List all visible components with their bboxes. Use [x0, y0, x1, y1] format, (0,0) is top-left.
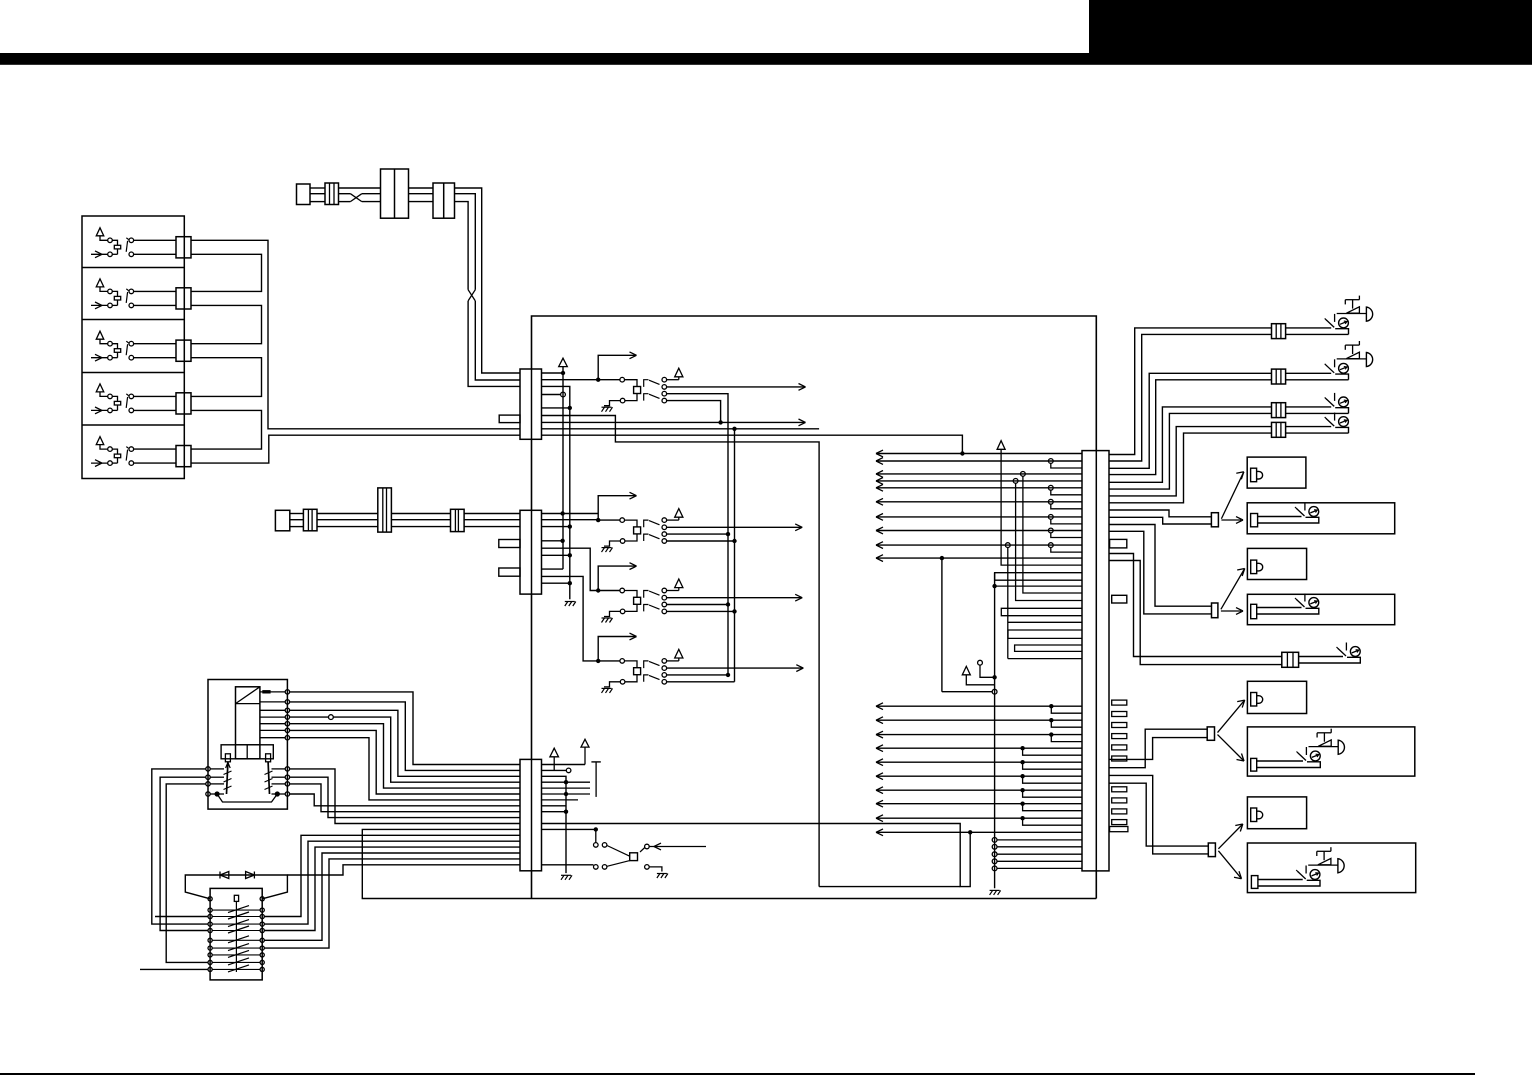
S3 output arrow wire	[667, 597, 803, 599]
CN4 stub A	[1110, 539, 1127, 548]
output jack PJ2	[1325, 364, 1327, 366]
CN2 key stub upper	[499, 540, 520, 548]
power unit pins left	[206, 767, 210, 771]
switch group S2 ground leg	[625, 534, 637, 541]
staircase wire 7	[1109, 427, 1272, 496]
V994 tap 5	[992, 866, 997, 871]
switch group S4 ground leg	[625, 675, 637, 682]
row U3 drop to comb	[1021, 472, 1026, 477]
row L10 junction riser	[968, 830, 972, 834]
bus row U7	[876, 516, 1082, 518]
remote small box B1a	[1247, 457, 1306, 488]
V994 tap 3	[992, 852, 997, 857]
arrow to small box 3	[1218, 700, 1245, 733]
switch group S3 enable arrow	[598, 566, 636, 590]
CN4 stub bank1	[1112, 700, 1127, 705]
CN2 key stub lower	[499, 568, 520, 576]
remote jack RJ4	[1296, 870, 1298, 872]
connector CN-J1	[176, 237, 191, 258]
chain2 connector CN-E	[451, 509, 465, 531]
phone jack J4	[96, 384, 104, 392]
CN3 right row 2 with contact	[542, 769, 567, 771]
remote inner plug rect 2	[1251, 604, 1257, 618]
phone jack J2	[96, 279, 104, 287]
remote long box B3b	[1247, 727, 1414, 776]
jack panel divider 4	[82, 424, 184, 426]
comb row 622	[1008, 621, 1082, 623]
comb bracket 3	[1008, 630, 1082, 638]
remote small box B2a	[1247, 548, 1306, 579]
V994 tap 4	[992, 859, 997, 864]
comb row with tap	[995, 585, 1082, 587]
switch group S2 feed junction	[596, 518, 600, 522]
diode D2	[246, 872, 255, 879]
bus row L4	[876, 747, 1082, 749]
CN1 key stub	[499, 415, 520, 423]
power unit top-right pin wires to CN3	[290, 692, 520, 765]
S4 contact4 end	[667, 681, 735, 683]
chain1 wire 3 down to CN1	[455, 202, 469, 290]
T5 stem	[584, 747, 586, 764]
daisy-chain wires jack panel	[191, 254, 262, 291]
row taps lower bank A	[1049, 704, 1053, 708]
bus row U8	[876, 530, 1082, 532]
header black panel	[1089, 0, 1532, 54]
supply triangle T3	[997, 441, 1005, 450]
switch group S1 ground leg	[625, 394, 637, 401]
wire CN1 pin5 to B2	[542, 407, 570, 409]
chain2 connector CN-C	[303, 509, 317, 531]
switch group S4 input contact	[598, 660, 620, 662]
switch group S1 ground	[602, 406, 612, 408]
bus B2	[542, 386, 570, 599]
bus row U4	[876, 480, 1082, 482]
remote icon I1	[1251, 468, 1257, 482]
output jack PJ3	[1325, 397, 1327, 399]
selector unit box	[210, 888, 262, 980]
remote icon I4	[1251, 808, 1257, 822]
switch group S3 input contact	[598, 590, 620, 592]
switch group S3 ground	[602, 617, 612, 619]
transformer leg R	[266, 754, 271, 762]
S1 contact3 drop	[667, 394, 728, 675]
switch group S2 contacts	[662, 518, 667, 523]
remote wire 3	[1257, 760, 1303, 762]
jack panel divider 2	[82, 319, 184, 321]
chain1 crossover X2	[468, 290, 475, 301]
main board outline	[532, 316, 1097, 899]
chain1 connector CN-A	[325, 183, 339, 205]
connector CN-J5	[176, 446, 191, 467]
wires jack J5 to connector	[134, 448, 176, 450]
chain1 wire 1 down to CN1	[455, 188, 521, 373]
wires CN-P3 to jack	[1286, 406, 1332, 408]
rectifier wire to CN3	[287, 865, 520, 875]
bus row U6	[876, 501, 1082, 503]
bus B1	[562, 367, 564, 569]
staircase wire 3	[1109, 373, 1272, 468]
board connector CN3	[520, 759, 542, 870]
inline connector CN-P1	[1272, 324, 1286, 339]
wire CN2 pin4 to B1	[542, 540, 563, 542]
switch group S2 output triangle	[667, 519, 679, 521]
V994 tap 1	[992, 838, 997, 843]
S1 output arrow wire	[667, 386, 806, 388]
jack panel divider 1	[82, 267, 184, 269]
remote wire 1	[1258, 516, 1302, 518]
wires CN-P5 to jack	[1299, 656, 1343, 658]
CN4 stub B	[1112, 595, 1127, 603]
switch group S3 feed junction	[596, 588, 600, 592]
power unit pins right	[285, 690, 289, 694]
switch group S1 actuator	[634, 387, 641, 394]
V994 ground	[990, 889, 1000, 891]
output jack PJ4	[1325, 417, 1327, 419]
chain1 plug P1	[297, 184, 311, 205]
bus row U1	[876, 453, 1082, 455]
wire CN2 pin8 feeds S4	[542, 576, 599, 661]
remote long box B1b	[1247, 503, 1395, 534]
board connector CN1	[520, 369, 542, 439]
reset switch arrow wire	[649, 846, 706, 848]
selector key pin	[234, 895, 238, 901]
contact circle K1	[978, 660, 983, 665]
staircase wire 4	[1109, 380, 1272, 475]
wire CN2 pin3 to B2	[542, 526, 570, 528]
selector contact rows	[212, 909, 260, 911]
row U4 drop to comb	[1013, 479, 1018, 484]
remote inner plug rect 1	[1251, 514, 1258, 527]
wire to remote CN-R1 a	[1109, 510, 1211, 517]
S3 contact4 tap	[667, 610, 735, 612]
comb bracket 1	[995, 573, 1082, 581]
wires CN-P2 to jack	[1286, 372, 1332, 374]
S4 contact3 end	[667, 674, 728, 676]
frame bottom wire	[819, 886, 960, 888]
bus row L5	[876, 761, 1082, 763]
CN3 right row 8	[542, 805, 567, 807]
wires CN-P4 to jack	[1286, 426, 1332, 428]
comb row 658	[1008, 658, 1082, 660]
remote long box B4b	[1247, 843, 1415, 893]
power unit box	[208, 680, 287, 810]
bus row L2	[876, 719, 1082, 721]
wrap wire C	[166, 784, 208, 963]
arrow to small box 1	[1221, 472, 1243, 519]
relay lever left	[227, 762, 228, 794]
phone jack J3	[96, 331, 104, 339]
wires CN-P1 to jack	[1286, 327, 1332, 329]
phone jack J1	[96, 228, 104, 236]
arrow to long box 4	[1218, 851, 1241, 879]
selector left stub wires	[155, 916, 208, 918]
bus row U10	[876, 557, 1082, 559]
remote long box B2b	[1247, 594, 1394, 624]
bus row L3	[876, 734, 1082, 736]
transformer leg L	[225, 754, 230, 762]
switch group S2 ground	[602, 547, 612, 549]
chain1 wires P1-CNA	[310, 187, 325, 189]
bus row U5	[876, 487, 1082, 489]
bus row L9	[876, 817, 1082, 819]
V994 bus	[994, 573, 996, 889]
wire CN1 pin9 to row1	[542, 435, 963, 453]
staircase wire 2	[1109, 334, 1272, 461]
S1 contact4 drop to aux arrow	[667, 401, 721, 423]
chain2 ferrite core FB2	[378, 488, 392, 532]
header rule bar	[0, 53, 1532, 65]
wires to remote CN-R2	[1109, 525, 1212, 607]
V1008 drop from row U9	[1005, 543, 1010, 548]
wire CN2 pin7 to B1 end	[542, 568, 564, 570]
selector right wires to CN3	[264, 835, 520, 916]
switch group S1 input contact	[598, 379, 620, 381]
chain2 wires CNC to CN-D	[317, 513, 378, 515]
bus V735	[734, 429, 736, 682]
remote connector CN-R4	[1208, 843, 1215, 857]
wire J1 to board connector CN1	[191, 240, 520, 428]
CN3 right row 3 bus start	[542, 776, 567, 873]
wire CN1 pin7 aux arrow	[542, 421, 806, 423]
wire CN2 pin1 to S2 riser	[542, 513, 599, 515]
reset switch lower contact wire	[542, 864, 594, 866]
T4 stem to row	[553, 757, 555, 771]
V1001 drop	[1001, 449, 1082, 565]
bus row L6	[876, 775, 1082, 777]
selector pins right	[260, 897, 264, 901]
wires jack J3 to connector	[134, 343, 176, 345]
relay contact dot left	[215, 791, 220, 796]
transformer base	[221, 745, 273, 759]
supply triangle T4	[550, 748, 559, 757]
riser V941 from row10	[941, 558, 943, 692]
reset switch feed	[542, 828, 596, 830]
inline contact circle on pin4 wire	[329, 715, 334, 720]
transformer T101	[236, 687, 260, 759]
relay lever right	[268, 762, 269, 794]
reset switch	[595, 829, 597, 842]
switch group S3 actuator	[634, 597, 641, 604]
board connector CN2	[520, 510, 542, 594]
CN4 stub bank2	[1112, 787, 1127, 792]
staircase wire 8	[1109, 433, 1272, 503]
chain1 connector CN-B	[433, 183, 455, 218]
wire CN1 pin4 to B1	[542, 394, 561, 396]
wires jack J4 to connector	[134, 395, 176, 397]
row taps lower bank B	[1020, 746, 1024, 750]
bus B2 ground	[565, 601, 575, 603]
chain2 plug P2	[275, 510, 289, 531]
remote icon I2	[1251, 560, 1257, 574]
arrow to long box 3	[1218, 735, 1245, 761]
switch group S4 actuator	[634, 668, 641, 675]
selector pins left	[208, 897, 212, 901]
remote small box B3a	[1247, 681, 1306, 713]
service bus ground	[561, 874, 571, 876]
remote wire 2	[1257, 607, 1302, 609]
switch group S3 ground leg	[625, 604, 637, 611]
switch group S1 contacts	[662, 377, 667, 382]
bus row U9	[876, 544, 1082, 546]
wire to remote CN-R1 b	[1109, 517, 1211, 524]
S2 output arrow wire	[667, 526, 803, 528]
arrow to long box 2	[1221, 610, 1241, 612]
selector switch levers	[228, 906, 249, 913]
chain1 ferrite core FB1	[381, 169, 409, 218]
switch group S4 output triangle	[667, 660, 679, 662]
chain2 wires CNE to CN2	[464, 513, 520, 515]
inline connector CN-P3	[1272, 403, 1286, 418]
remote jack RJ2	[1295, 598, 1297, 600]
remote connector CN-R1	[1211, 513, 1218, 527]
switch group S1 enable arrow	[598, 355, 636, 379]
output jack PJ5	[1337, 647, 1339, 649]
wire CN2 pin9 to B2	[542, 582, 570, 584]
row U10 junction	[940, 556, 944, 560]
CN3 right rows 4-7	[542, 781, 591, 783]
staircase wire 6	[1109, 413, 1272, 489]
connector CN-J4	[176, 393, 191, 414]
connector CN-J2	[176, 288, 191, 309]
switch group S1 output triangle	[667, 379, 679, 381]
switch group S2 actuator	[634, 527, 641, 534]
inline connector CN-P5	[1282, 652, 1299, 667]
rectifier bracket	[185, 875, 287, 899]
chain1 crossover X1	[350, 194, 361, 202]
T-bar symbol	[591, 761, 600, 763]
connector CN-J3	[176, 340, 191, 361]
remote jack RJ1	[1295, 507, 1297, 509]
switch group S2 enable arrow	[598, 496, 636, 520]
selector shaft	[235, 901, 237, 972]
remote icon I3	[1251, 693, 1257, 707]
CN3 right row 1	[542, 764, 586, 766]
wire J5 to board connector CN1	[191, 435, 520, 463]
bus row L1	[876, 705, 1082, 707]
chain1 wire 2 down to CN1	[455, 194, 476, 290]
CN3 long wire to frame	[542, 824, 971, 887]
polarity mark	[262, 690, 270, 693]
supply triangle T2 drop	[966, 675, 994, 685]
wire CN2 pin2 feeds S2	[542, 519, 599, 521]
wrap wire A	[152, 769, 208, 924]
switch group S4 enable arrow	[598, 637, 636, 661]
remote small box B4a	[1247, 797, 1306, 829]
jack panel box	[82, 216, 184, 479]
chain2 wires P2-CNC	[290, 513, 304, 515]
relay contact dot right	[275, 791, 280, 796]
wire CN2 pin5 feeds S3	[542, 548, 599, 590]
switch group S4 feed junction	[596, 659, 600, 663]
S3 contact3 tap	[667, 604, 728, 606]
board connector CN4	[1082, 451, 1109, 871]
bus row L10	[876, 831, 1082, 833]
CN3 left feed row 829	[362, 829, 531, 898]
S2 contact3 tap	[667, 533, 728, 535]
remote jack RJ3	[1297, 752, 1299, 754]
bus row U3	[876, 473, 1082, 475]
bus row L8	[876, 803, 1082, 805]
bus row U2	[876, 460, 1082, 462]
arrow to small box 2	[1221, 569, 1245, 610]
wires jack J1 to connector	[134, 239, 176, 241]
arrow to long box 1	[1221, 519, 1241, 521]
diode D1	[220, 872, 229, 879]
wire CN1 pin1 to B1	[542, 372, 564, 374]
wires to remote CN-R3	[1109, 738, 1207, 760]
switch group S4 ground	[602, 687, 612, 689]
S4 output arrow wire	[667, 667, 804, 669]
remote inner plug rect 3	[1251, 758, 1257, 771]
switch group S3 contacts	[662, 588, 667, 593]
remote connector CN-R2	[1212, 603, 1218, 618]
comb bracket 2	[1001, 608, 1082, 615]
supply triangle T1	[559, 358, 568, 366]
wire CN1 pin6 inner frame	[542, 416, 820, 887]
power unit lower-right pin wires to CN3	[290, 794, 520, 806]
switch group S2 input contact	[598, 519, 620, 521]
chain1 wires FB1-CNB	[409, 187, 434, 189]
remote inner plug rect 4	[1251, 876, 1258, 889]
remote wire 4	[1258, 879, 1303, 881]
staircase wire 1	[1109, 328, 1272, 455]
relay contact bracket	[217, 794, 277, 802]
chain2 wires FB2 to CN-E	[391, 513, 450, 515]
arrow to small box 4	[1218, 824, 1242, 849]
comb bracket 4	[1015, 645, 1082, 651]
phone jack J5	[96, 437, 104, 445]
CN3 right row 9	[542, 811, 567, 813]
row taps with pin drops upper	[1048, 459, 1053, 464]
supply triangle T5	[581, 739, 589, 747]
bus row L7	[876, 789, 1082, 791]
switch group S1 feed junction	[596, 378, 600, 382]
wires jack J2 to connector	[134, 290, 176, 292]
remote connector CN-R3	[1207, 727, 1214, 740]
inline connector CN-P4	[1272, 422, 1286, 437]
S2 contact4 tap	[667, 540, 735, 542]
staircase wire 5	[1109, 407, 1272, 482]
wrap wire B	[160, 777, 208, 930]
footer rule	[0, 1073, 1475, 1075]
wire CN2 pin6 to B2	[542, 554, 570, 556]
V994 tap 2	[992, 844, 997, 849]
wire CN1 pin8 to frame	[542, 428, 820, 430]
wires to remote CN-R4	[1109, 775, 1208, 854]
wire CN1 pin2 feeds S1	[542, 379, 599, 381]
switch group S4 contacts	[662, 659, 667, 664]
reset switch ground leg	[649, 867, 662, 872]
wires to single jack PJ5	[1109, 554, 1282, 657]
switch group S3 output triangle	[667, 590, 679, 592]
chain1 wires CNA to ferrite with crossover	[339, 187, 381, 189]
output jack PJ1	[1325, 318, 1327, 320]
inline connector CN-P2	[1272, 369, 1286, 384]
CN4 stub C	[1110, 827, 1128, 832]
jack panel divider 3	[82, 372, 184, 374]
